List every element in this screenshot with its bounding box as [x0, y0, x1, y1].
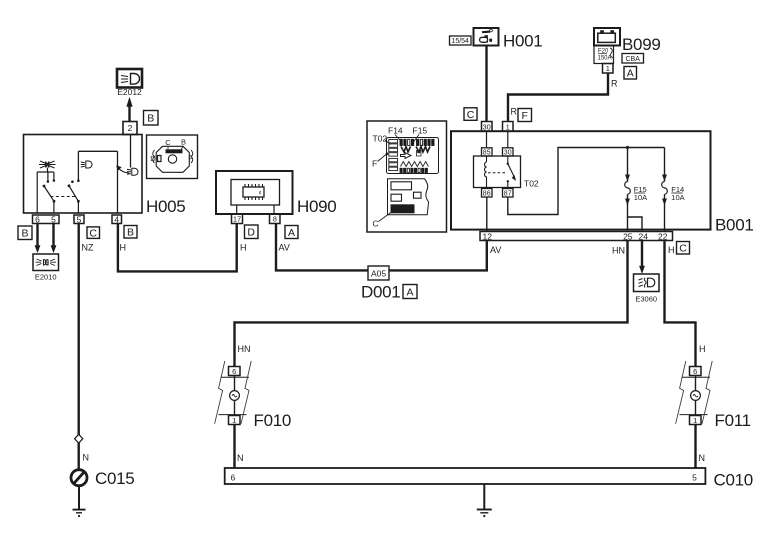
- H005 internal: bracket wiring: [37, 168, 54, 214]
- pin 17 of H090: [232, 214, 243, 224]
- svg-text:T02: T02: [373, 134, 388, 144]
- svg-text:HN: HN: [612, 246, 625, 256]
- small fuse outline: [417, 151, 422, 157]
- B001 bottom pin strip: [480, 232, 673, 241]
- svg-text:C015: C015: [95, 469, 134, 488]
- svg-text:HN: HN: [238, 344, 251, 354]
- H090 inner module box: [231, 180, 280, 206]
- wire H001 to B001 pin30: [485, 46, 487, 122]
- svg-text:H: H: [668, 245, 675, 255]
- H005 internal: top rail: [78, 151, 117, 213]
- inset fuse panel drawing: [387, 138, 439, 174]
- fog lamp F011: [676, 361, 751, 430]
- svg-text:F14: F14: [388, 126, 403, 136]
- relay dashed actuator link: [488, 172, 507, 174]
- H005 internal: right lamp icon: [127, 168, 138, 175]
- pin 8 of H090: [270, 214, 281, 224]
- connector face inset of H005: [147, 135, 198, 179]
- connector label C (pin 5): [87, 227, 100, 239]
- fuse layout inset box: [367, 121, 447, 232]
- relay contact: [507, 156, 516, 188]
- ground symbol under C015: [73, 486, 86, 517]
- ground symbol under C010: [477, 510, 492, 518]
- octagon outline: [156, 146, 189, 172]
- relay column: [389, 140, 398, 143]
- svg-text:A: A: [288, 227, 295, 239]
- connector label A (B099): [624, 67, 637, 80]
- connector label F (B001 pin1): [518, 109, 532, 122]
- connector label A (D001): [403, 285, 417, 299]
- svg-text:150A: 150A: [598, 56, 612, 62]
- battery B099: [594, 28, 661, 54]
- wire F15 to pins 25 and 24: [628, 217, 643, 232]
- relay T02 feeds: [487, 131, 508, 148]
- fog lamps symbol E2010: [33, 254, 59, 282]
- svg-text:B099: B099: [622, 35, 661, 54]
- svg-text:1: 1: [506, 122, 510, 131]
- svg-text:A: A: [627, 67, 634, 79]
- H005 internal: wire from pin 2 down to right icon: [130, 135, 132, 168]
- connector label B (pin 4): [124, 226, 137, 239]
- pin 1 of B099: [603, 64, 614, 74]
- H005 internal: mid lamp icon: [81, 161, 92, 168]
- svg-text:10A: 10A: [634, 193, 647, 202]
- H005 internal: switch 1: [43, 179, 56, 213]
- relay pin 85: [482, 148, 493, 157]
- side latch squiggles: [153, 150, 155, 163]
- relay pin 87: [503, 189, 514, 198]
- svg-text:C: C: [165, 138, 171, 147]
- svg-text:T02: T02: [524, 179, 539, 189]
- svg-text:10A: 10A: [671, 193, 684, 202]
- inset labels F14 F15 T02: [373, 126, 428, 145]
- ground connection C015: [71, 469, 134, 488]
- wire R from B099 to B001 pin1: [508, 73, 608, 122]
- pin row 6 5 of H005: [33, 214, 60, 224]
- splice diamond on NZ wire: [75, 434, 83, 443]
- wire AV from H090 pin8 to B001 pin12: [276, 224, 487, 271]
- svg-text:B: B: [147, 113, 154, 125]
- connector label B (pin2): [144, 111, 159, 126]
- arrow from pin24 to E3060: [639, 241, 644, 274]
- svg-text:25: 25: [623, 231, 633, 241]
- svg-text:5: 5: [51, 214, 56, 224]
- pin 5 of H005: [74, 214, 84, 224]
- svg-text:N: N: [237, 453, 244, 463]
- svg-text:H: H: [699, 344, 706, 354]
- relay T02 box: [474, 156, 521, 188]
- svg-text:E3060: E3060: [635, 295, 657, 304]
- fog lamp F010: [215, 361, 291, 430]
- relay coil: [485, 156, 487, 188]
- svg-text:B: B: [21, 228, 28, 240]
- svg-text:B: B: [127, 227, 134, 239]
- svg-text:1: 1: [693, 416, 697, 425]
- wire arrows from pins 6,5 to E2010: [35, 224, 56, 253]
- svg-text:87: 87: [504, 190, 512, 197]
- svg-text:CBA: CBA: [625, 56, 640, 63]
- connector label C (B001 bottom): [677, 242, 690, 255]
- wire H from pin22 to F011: [665, 241, 696, 367]
- svg-text:4: 4: [114, 214, 119, 224]
- fog lamp telltale E3060: [634, 274, 660, 304]
- wire pin2 to E2012 with arrow: [127, 98, 133, 122]
- connector label B (pins 6-5): [18, 226, 32, 240]
- svg-text:D: D: [247, 227, 255, 239]
- mid dark blocks: [401, 147, 411, 153]
- svg-text:C: C: [467, 109, 475, 121]
- wire relay 86 to pin 12: [486, 197, 488, 232]
- connector label D (pin 17): [245, 225, 259, 239]
- svg-text:15/54: 15/54: [451, 38, 469, 45]
- wire F011 to C010 pin5: [694, 425, 696, 469]
- svg-text:AV: AV: [279, 243, 290, 253]
- junction on fuse rail: [626, 146, 629, 149]
- pin 4 of H005: [112, 214, 122, 224]
- ground wire from C010: [483, 484, 485, 509]
- svg-text:D001: D001: [361, 283, 400, 302]
- white arrow: [401, 153, 412, 159]
- wire relay 87 to fuse rail: [508, 148, 665, 215]
- relay pin 86: [482, 189, 493, 198]
- ground distribution bar C010: [225, 468, 706, 484]
- svg-text:F: F: [188, 154, 193, 163]
- svg-text:22: 22: [658, 231, 668, 241]
- svg-text:C: C: [679, 243, 687, 255]
- svg-text:30: 30: [483, 122, 491, 131]
- svg-text:E2010: E2010: [35, 273, 57, 282]
- connector label A (pin 8): [285, 226, 298, 239]
- splice A05 on AV wire: [368, 266, 389, 280]
- zigzag row: [401, 162, 429, 167]
- inset lower connector drawing: [388, 179, 429, 215]
- svg-text:R: R: [611, 79, 618, 89]
- svg-text:F010: F010: [254, 411, 292, 430]
- svg-text:5: 5: [77, 214, 82, 224]
- H090 IC chip: [243, 184, 264, 200]
- svg-text:6: 6: [693, 367, 697, 376]
- fuse F15: [625, 148, 647, 218]
- svg-text:H: H: [240, 243, 247, 253]
- svg-text:NZ: NZ: [82, 243, 94, 253]
- wire HN from pin25 to F010: [235, 241, 628, 367]
- H090 internal links to pins: [237, 205, 274, 214]
- fusebox B001 main box: [451, 131, 711, 229]
- H005 internal: switch 2: [68, 179, 80, 213]
- wire H005 pin4 to H090 pin17: [118, 224, 237, 272]
- inset C pointer: [373, 212, 392, 229]
- svg-text:1: 1: [606, 64, 610, 73]
- svg-text:8: 8: [273, 215, 277, 224]
- connector label C (B001 pin30): [464, 108, 477, 121]
- control unit H090 box: [216, 171, 293, 214]
- svg-text:1: 1: [232, 416, 236, 425]
- svg-text:17: 17: [233, 215, 241, 224]
- bottom fuse row: [400, 168, 402, 172]
- svg-text:N: N: [699, 453, 706, 463]
- svg-text:B001: B001: [715, 216, 754, 235]
- black keying bar: [166, 149, 183, 153]
- megafuse box of B099: [594, 46, 614, 64]
- H005 internal: curved lever with arrow: [116, 166, 129, 173]
- svg-text:24: 24: [639, 231, 649, 241]
- switch unit H005 box: [24, 135, 143, 214]
- svg-text:2: 2: [128, 123, 133, 133]
- inset F pointer: [372, 152, 388, 168]
- svg-text:A: A: [406, 286, 413, 298]
- H005 internal: gang dashed link: [51, 196, 77, 198]
- terminal label 15/54: [450, 36, 472, 45]
- svg-text:6: 6: [231, 472, 236, 482]
- svg-text:F: F: [521, 110, 527, 122]
- svg-text:N: N: [83, 453, 90, 463]
- pin 30 of B001: [482, 122, 493, 132]
- svg-text:C010: C010: [714, 471, 753, 490]
- ignition switch H001: [474, 28, 543, 51]
- svg-text:F011: F011: [715, 411, 751, 430]
- label CBA: [622, 54, 644, 64]
- wire NZ from H005 pin5 to C015: [77, 224, 79, 470]
- earth/lamp symbol E2012 (low beam headlamp): [117, 69, 142, 97]
- svg-text:H090: H090: [297, 197, 336, 216]
- pin 2 of H005: [123, 122, 137, 135]
- svg-text:C: C: [373, 219, 379, 229]
- svg-text:12: 12: [483, 231, 493, 241]
- svg-text:E2012: E2012: [117, 87, 142, 97]
- svg-text:86: 86: [483, 190, 491, 197]
- svg-text:H005: H005: [146, 197, 185, 216]
- H005 internal: flash symbol: [39, 161, 56, 168]
- svg-text:F15: F15: [413, 126, 428, 136]
- svg-text:F: F: [372, 159, 377, 169]
- center circle: [168, 155, 176, 163]
- svg-text:H001: H001: [503, 32, 542, 51]
- svg-text:AV: AV: [490, 245, 501, 255]
- svg-text:6: 6: [232, 367, 236, 376]
- svg-text:C: C: [89, 227, 97, 239]
- relay pin 30: [503, 148, 514, 157]
- svg-text:6: 6: [35, 214, 40, 224]
- wire F010 to C010 pin6: [233, 425, 235, 469]
- svg-text:A05: A05: [371, 268, 386, 278]
- svg-text:R: R: [511, 107, 518, 117]
- svg-text:H: H: [120, 243, 127, 253]
- svg-text:5: 5: [692, 472, 697, 482]
- fuse F14: [662, 148, 685, 232]
- svg-text:B: B: [181, 138, 186, 147]
- pin 1 of B001: [503, 122, 514, 132]
- fuse row top: [400, 139, 402, 145]
- svg-text:D: D: [150, 154, 156, 163]
